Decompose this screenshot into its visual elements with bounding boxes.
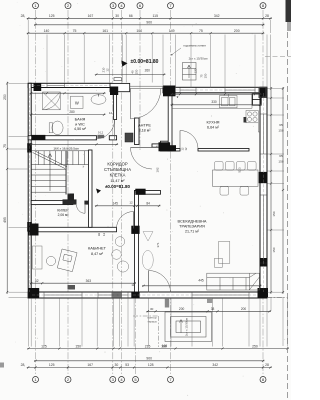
entrance steps top — [183, 63, 197, 81]
svg-text:900: 900 — [146, 357, 152, 361]
svg-text:115: 115 — [153, 14, 159, 18]
shower cabin — [43, 92, 61, 110]
svg-text:12: 12 — [106, 68, 110, 72]
column kabinet north wall west — [28, 224, 39, 236]
svg-text:140: 140 — [44, 29, 50, 33]
left dimension column — [6, 82, 8, 294]
chimney rect above wall — [114, 78, 122, 81]
column corridor-living wall left — [135, 189, 145, 195]
antre cabinet — [125, 133, 133, 142]
podzemna line leader — [172, 48, 181, 55]
terrace dashed contour — [133, 298, 288, 347]
toilet — [52, 121, 63, 135]
svg-text:84: 84 — [146, 202, 150, 206]
svg-text:30: 30 — [115, 363, 119, 367]
column axis7 top — [163, 86, 176, 97]
door jamb piece — [97, 135, 104, 138]
dining table — [213, 170, 259, 186]
right exterior wall — [260, 87, 267, 298]
svg-text:КАБИНЕТ: КАБИНЕТ — [88, 246, 107, 251]
svg-text:200: 200 — [179, 307, 185, 311]
column left wall mid1 — [27, 143, 32, 152]
scan speckle — [94, 60, 97, 63]
svg-text:42: 42 — [35, 279, 39, 283]
kabinet east wall — [135, 191, 139, 293]
jog wall at axes 3-4 — [110, 83, 130, 91]
svg-text:260: 260 — [145, 69, 151, 73]
svg-text:161: 161 — [102, 29, 108, 33]
svg-text:495: 495 — [3, 217, 7, 223]
extension lines above building — [27, 35, 29, 83]
dim 445 living — [142, 285, 262, 287]
svg-text:КЛЕТКА: КЛЕТКА — [110, 173, 126, 178]
svg-text:250: 250 — [3, 94, 7, 100]
svg-text:65: 65 — [279, 123, 283, 127]
svg-text:2,06 м²: 2,06 м² — [58, 213, 70, 217]
terrace door bottom wall — [149, 271, 171, 293]
svg-text:128: 128 — [148, 363, 154, 367]
svg-text:192: 192 — [155, 167, 159, 172]
column right bottom corner — [258, 288, 269, 298]
entrance door arc — [131, 89, 161, 119]
svg-text:200: 200 — [241, 307, 247, 311]
svg-text:⊦: ⊦ — [83, 165, 85, 169]
svg-text:160: 160 — [162, 344, 168, 348]
kitchen door — [180, 131, 198, 149]
column axis1 top corner — [34, 83, 42, 91]
column right wall lower — [260, 258, 267, 267]
scan border right — [287, 23, 289, 398]
svg-text:8,47 м²: 8,47 м² — [91, 252, 104, 256]
kitchen counter — [172, 94, 252, 108]
column right wall mid — [259, 172, 267, 183]
svg-text:38: 38 — [211, 307, 215, 311]
column axes3-4 top — [110, 87, 118, 96]
small pier above bottom wall — [68, 285, 76, 290]
stove — [246, 111, 258, 123]
extension lines right side — [268, 88, 285, 90]
column left wall mid2 — [27, 222, 32, 232]
bottom exterior wall — [28, 292, 267, 298]
stairs break line — [33, 151, 67, 169]
svg-text:900: 900 — [146, 21, 152, 25]
stair/kiler east wall — [89, 150, 93, 227]
column bottom wall mid — [131, 292, 139, 299]
svg-text:445: 445 — [198, 279, 204, 283]
svg-text:28: 28 — [265, 363, 269, 367]
column kitchen west wall top — [168, 145, 177, 151]
column antre south-east corner — [159, 142, 171, 151]
kabinet window 2 bottom wall — [98, 292, 128, 298]
svg-text:КУХНЯ: КУХНЯ — [207, 120, 220, 125]
kitchen south wall — [172, 149, 180, 152]
dash line top right — [265, 56, 291, 58]
tv unit living — [215, 242, 230, 268]
svg-text:и WC: и WC — [75, 121, 85, 126]
rug living — [142, 250, 153, 269]
svg-text:53: 53 — [125, 363, 129, 367]
svg-text:150: 150 — [204, 73, 208, 78]
svg-text:АНТРЕ: АНТРЕ — [138, 122, 151, 127]
kiler north wall — [31, 201, 73, 205]
svg-text:125: 125 — [49, 14, 55, 18]
svg-text:±0.00=81.80: ±0.00=81.80 — [105, 184, 131, 189]
plant living — [143, 232, 153, 242]
svg-text:12: 12 — [102, 233, 106, 237]
antre-living door — [131, 148, 153, 170]
svg-text:145: 145 — [113, 202, 119, 206]
svg-text:149: 149 — [169, 29, 175, 33]
svg-text:30: 30 — [115, 14, 119, 18]
svg-text:ТРАПЕЗАРИЯ: ТРАПЕЗАРИЯ — [179, 224, 205, 229]
svg-text:11,47 м²: 11,47 м² — [110, 179, 125, 183]
terrace door pilaster stubs — [165, 298, 169, 307]
scan blob bottom left — [0, 363, 4, 368]
kitchen sink — [220, 94, 238, 108]
top dimension row 3 — [27, 32, 265, 34]
bathroom south wall — [28, 136, 96, 140]
svg-text:тераса: тераса — [147, 319, 157, 323]
svg-text:120: 120 — [194, 68, 198, 73]
top dimension row 2 (900 overall) — [34, 24, 265, 26]
svg-text:КОРИДОР: КОРИДОР — [107, 161, 128, 166]
bottom dimension row B (900) — [34, 360, 265, 362]
right wall window 1 — [260, 114, 267, 154]
antre south wall — [152, 144, 161, 147]
kitchen window 1 top wall — [180, 87, 196, 93]
corridor dim line below bathroom wall — [30, 143, 118, 145]
svg-text:65: 65 — [279, 154, 283, 158]
vertical axis grid lines — [36, 10, 264, 374]
svg-text:215: 215 — [145, 344, 151, 348]
svg-text:75: 75 — [73, 29, 77, 33]
kabinet small sofa — [33, 246, 43, 269]
svg-text:125: 125 — [49, 363, 55, 367]
svg-text:167: 167 — [87, 363, 93, 367]
svg-text:6,64 м²: 6,64 м² — [207, 126, 220, 130]
wall core dash lines — [30, 85, 264, 295]
svg-text:*: * — [177, 96, 179, 102]
svg-text:30: 30 — [150, 307, 154, 311]
exterior top wall kitchen section — [163, 87, 267, 93]
svg-text:342: 342 — [214, 14, 220, 18]
axis circles bottom — [33, 377, 39, 383]
corridor-living wall — [135, 191, 161, 195]
scan blob top right — [286, 0, 292, 22]
bottom dimension row A — [27, 348, 289, 350]
svg-text:28,: 28, — [21, 14, 26, 18]
kitchen window 2 top wall — [225, 87, 255, 93]
kabinet armchairs + table — [112, 237, 129, 272]
fridge — [252, 94, 261, 105]
bathroom door — [96, 120, 115, 139]
dims row below bottom wall 30 200 38 200 — [146, 310, 271, 312]
column bathroom south wall left — [31, 135, 45, 140]
column axis8 top corner — [259, 87, 267, 98]
stair duct block — [68, 194, 75, 201]
svg-text:167: 167 — [88, 14, 94, 18]
right dimension columns — [270, 87, 272, 294]
svg-text:200: 200 — [234, 29, 240, 33]
small north marker — [96, 189, 101, 194]
svg-text:2ст х 15/30см: 2ст х 15/30см — [189, 57, 208, 61]
svg-text:21,71 м²: 21,71 м² — [185, 230, 200, 234]
kabinet door — [117, 212, 134, 229]
svg-text:371: 371 — [156, 242, 160, 247]
exterior top wall left section (bathroom) — [28, 83, 111, 87]
svg-text:150: 150 — [75, 344, 81, 348]
svg-text:42: 42 — [156, 144, 160, 148]
column bottom wall axes3-4 — [112, 292, 123, 297]
kabinet north wall — [28, 227, 116, 232]
bottom wall living window — [192, 292, 249, 298]
top dimension row 1 — [27, 17, 272, 19]
bathroom sink — [91, 95, 106, 105]
svg-text:12: 12 — [129, 201, 133, 205]
counter edge right — [258, 123, 260, 132]
svg-text:4,50 м²: 4,50 м² — [74, 127, 87, 131]
svg-text:150: 150 — [272, 247, 276, 252]
kabinet chair — [46, 256, 55, 265]
svg-text:28,: 28, — [21, 363, 26, 367]
antre south-east stub — [161, 141, 173, 151]
svg-text:250: 250 — [252, 344, 258, 348]
svg-text:подземна линия: подземна линия — [183, 44, 206, 48]
svg-text:150: 150 — [278, 160, 283, 164]
svg-text:СТЪЛБИЩНА: СТЪЛБИЩНА — [104, 167, 131, 172]
svg-text:2ст х 15/30см: 2ст х 15/30см — [185, 318, 189, 336]
svg-text:92: 92 — [97, 233, 101, 237]
svg-text:330: 330 — [211, 100, 217, 104]
column left bottom corner — [29, 288, 40, 298]
svg-text:150: 150 — [272, 211, 276, 216]
kitchen west wall — [168, 93, 172, 149]
right wall window 2 — [260, 195, 267, 263]
column kabinet north wall east — [131, 226, 139, 234]
svg-text:3,18 м²: 3,18 м² — [139, 129, 152, 133]
svg-text:100: 100 — [136, 29, 142, 33]
extension lines left side — [9, 82, 28, 84]
svg-text:W: W — [75, 101, 79, 106]
svg-text:28: 28 — [265, 14, 269, 18]
axis circles top — [33, 3, 39, 9]
svg-text:75: 75 — [199, 29, 203, 33]
svg-text:75: 75 — [3, 144, 7, 148]
svg-text:9 12: 9 12 — [98, 131, 104, 135]
kabinet desk — [57, 249, 77, 272]
bottom dimension row C — [27, 366, 272, 368]
svg-text:280: 280 — [69, 110, 75, 114]
svg-text:150: 150 — [135, 69, 139, 74]
washing machine — [71, 96, 84, 108]
extension lines below building — [28, 298, 30, 346]
corridor/antre west wall — [135, 118, 140, 145]
bathroom window top wall — [47, 83, 65, 87]
bathroom east wall — [114, 91, 117, 120]
left exterior wall — [28, 83, 31, 298]
kabinet window 1 bottom wall — [44, 292, 82, 298]
svg-text:150: 150 — [278, 129, 283, 133]
top wall entrance section sill — [130, 86, 163, 89]
stairs upper flight treads — [31, 151, 88, 165]
stairs up arrow — [48, 154, 52, 192]
stairs lower flight treads — [31, 151, 66, 195]
svg-text:66: 66 — [129, 14, 133, 18]
kiler door — [77, 205, 86, 214]
svg-text:523: 523 — [238, 167, 242, 172]
svg-text:12: 12 — [109, 111, 113, 115]
svg-text:342: 342 — [212, 363, 218, 367]
bottom entrance steps — [165, 312, 212, 342]
svg-text:16Х х 16,8/29,5см: 16Х х 16,8/29,5см — [53, 147, 78, 151]
dining chairs row — [215, 162, 257, 196]
svg-text:±0.00=81.80: ±0.00=81.80 — [131, 59, 159, 65]
sofa — [207, 273, 260, 290]
svg-text:363: 363 — [86, 279, 92, 283]
mid dims 145 12 84 — [95, 205, 161, 207]
